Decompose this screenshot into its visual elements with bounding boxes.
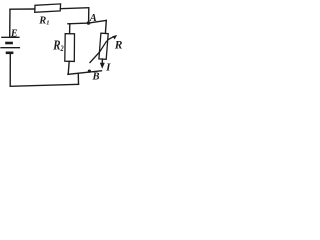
svg-text:R: R [114, 40, 123, 52]
resistor R1 [35, 4, 61, 12]
wire top-right horizontal [60, 8, 88, 9]
wire bottom horizontal [10, 84, 78, 86]
wire left vertical upper [9, 9, 11, 37]
rheostat arrow [90, 35, 118, 63]
node B dot [88, 70, 91, 73]
node A dot [87, 21, 91, 25]
wire node A horizontal [68, 20, 106, 23]
battery E short thick plate 1 [5, 42, 13, 45]
svg-text:R2: R2 [52, 39, 63, 54]
battery E short thick plate 2 [6, 51, 14, 54]
svg-text:B: B [92, 72, 100, 83]
svg-text:A: A [89, 13, 97, 24]
current I arrowhead [100, 63, 105, 69]
svg-text:R1: R1 [38, 16, 49, 27]
wire junction line B [68, 71, 102, 75]
svg-text:I: I [105, 61, 111, 73]
wire R top lead [104, 20, 107, 33]
wire R2 top lead [69, 24, 71, 34]
wire node A vertical [88, 8, 90, 23]
rheostat R box [99, 33, 108, 59]
svg-text:E: E [10, 29, 18, 40]
wire R2 bottom lead [68, 61, 69, 74]
resistor R2 [65, 34, 75, 62]
wire top-left horizontal [10, 8, 35, 10]
battery E long plate 1 [1, 36, 19, 38]
wire left vertical lower [9, 54, 11, 87]
battery E long plate 2 [0, 47, 20, 49]
wire R bottom lead (current I) [101, 59, 103, 63]
wire riser to node B line [77, 74, 79, 84]
